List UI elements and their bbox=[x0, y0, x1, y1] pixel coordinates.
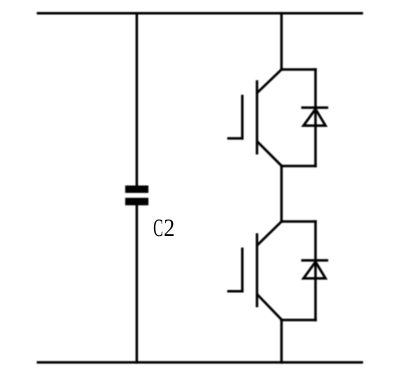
wire midpoint node bbox=[280, 166, 283, 222]
capacitor C2 top plate bbox=[125, 186, 148, 193]
wire capacitor branch upper bbox=[136, 13, 139, 186]
transistor Q1 (upper IGBT) bbox=[229, 70, 282, 166]
svg-text:C: C bbox=[153, 213, 163, 242]
transistor Q2 (lower IGBT) bbox=[229, 222, 282, 320]
wire top DC+ rail bbox=[38, 12, 362, 15]
wire capacitor branch lower bbox=[136, 205, 139, 362]
wire diode D1 branch bbox=[314, 70, 317, 167]
wire Q2 collector to diode D2 bbox=[282, 220, 316, 223]
wire bottom DC- rail bbox=[38, 361, 362, 364]
capacitor C2 bottom plate bbox=[125, 198, 148, 206]
wire Q2 emitter to bottom rail bbox=[280, 320, 283, 362]
diode D2 bbox=[303, 260, 328, 278]
wire Q1 emitter to diode D1 bbox=[282, 165, 316, 168]
wire Q1 collector to diode D1 bbox=[282, 68, 316, 71]
wire diode D2 branch bbox=[314, 222, 317, 321]
wire upper branch to Q1 collector bbox=[280, 13, 283, 69]
svg-text:2: 2 bbox=[164, 213, 175, 242]
wire Q2 emitter to diode D2 bbox=[282, 319, 316, 322]
diode D1 bbox=[303, 108, 328, 126]
